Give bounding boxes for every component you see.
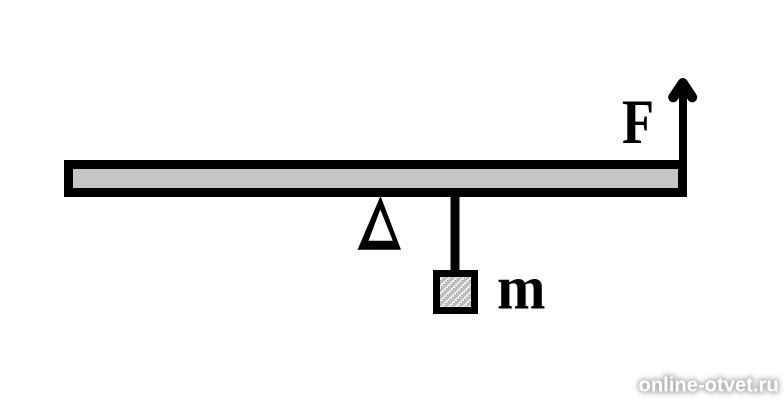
beam (lever bar) <box>69 165 683 193</box>
mass square m <box>403 265 530 312</box>
rod from beam to mass <box>451 193 460 273</box>
svg-text:online-otvet.ru: online-otvet.ru <box>639 375 779 397</box>
fulcrum triangle inner <box>369 210 393 241</box>
fulcrum triangle outer <box>358 196 402 250</box>
svg-text:F: F <box>622 87 654 157</box>
svg-text:m: m <box>497 255 546 323</box>
force arrow F head <box>673 83 692 97</box>
force arrow F shaft <box>679 88 687 197</box>
